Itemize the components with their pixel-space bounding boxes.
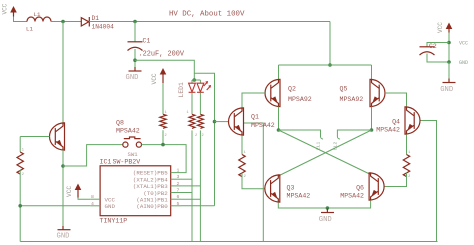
wire Q5 collector down	[371, 107, 373, 130]
wire LED branch	[135, 60, 194, 80]
node VCC C2	[447, 41, 451, 45]
resistor pair left (PB4)	[189, 114, 195, 128]
node bridge top	[328, 63, 332, 67]
IC pin stubs left	[90, 199, 100, 206]
svg-text:IC1: IC1	[100, 158, 112, 165]
svg-text:2: 2	[177, 181, 180, 187]
svg-text:GND: GND	[105, 203, 116, 210]
transistor Q5 MPSA92	[340, 79, 386, 107]
wire Q8 base	[20, 136, 49, 138]
riser PB4 to left pair resistor	[191, 130, 193, 241]
svg-text:8: 8	[91, 194, 94, 200]
svg-text:GND: GND	[440, 86, 453, 94]
svg-text:2: 2	[195, 134, 197, 138]
svg-text:2: 2	[244, 175, 246, 179]
svg-text:C2: C2	[429, 43, 437, 50]
svg-text:1: 1	[177, 168, 180, 174]
resistor pair right (PB3)	[197, 114, 203, 128]
wire Q2 emitter top	[278, 65, 280, 80]
riser PB0 to LED top	[194, 73, 214, 206]
wire pin7 tap	[181, 192, 193, 194]
supply VCC top right	[437, 22, 452, 33]
wire R to SW net	[162, 130, 164, 144]
svg-text:(AIN0)PB0: (AIN0)PB0	[136, 203, 168, 210]
transistor Q4 MPSA42	[376, 106, 420, 134]
capacitor C2	[420, 43, 450, 63]
svg-text:2: 2	[408, 175, 410, 179]
riser PB3 to right pair resistor	[199, 130, 201, 241]
svg-text:VCC: VCC	[437, 22, 444, 33]
transistor Q8 MPSA42	[49, 120, 139, 151]
resistor Q8 base	[17, 152, 23, 174]
wire Q1 base	[215, 121, 229, 123]
svg-text:1: 1	[187, 111, 189, 115]
wires LED to resistors	[191, 93, 193, 115]
transistor Q1 MPSA42	[228, 107, 274, 135]
supply VCC mid arrow	[151, 68, 166, 85]
wire diagonal Q2 to Q6	[279, 130, 371, 175]
capacitor C1	[128, 38, 185, 59]
bridge top rail	[279, 64, 372, 66]
svg-text:.22uF, 200V: .22uF, 200V	[139, 51, 185, 59]
pin numbers right	[177, 168, 180, 207]
diode D1 1N4004	[81, 15, 114, 30]
node GND C2	[447, 60, 451, 64]
svg-text:1: 1	[408, 151, 410, 155]
wire pin6 tap	[181, 198, 201, 200]
wire C1 drop	[134, 22, 136, 42]
svg-text:L1: L1	[34, 11, 41, 18]
wire base resistor top	[19, 137, 21, 153]
svg-text:2: 2	[202, 134, 204, 138]
wire pin3 tap	[181, 178, 193, 180]
wire HV to bridge	[329, 22, 331, 66]
svg-text:6: 6	[177, 194, 180, 200]
svg-text:VCC: VCC	[66, 186, 73, 197]
wire VCC to R	[162, 83, 164, 114]
svg-text:1: 1	[165, 111, 167, 115]
transistor Q2 MPSA92	[265, 79, 312, 107]
svg-text:Q2: Q2	[288, 85, 296, 92]
svg-text:GND: GND	[57, 232, 70, 240]
svg-text:MPSA42: MPSA42	[376, 127, 400, 134]
riser Q4 base to rail	[420, 121, 437, 242]
wire Q8 collector from node	[62, 22, 64, 124]
wire pin2 tap	[181, 185, 201, 187]
wire Q2 collector down	[278, 107, 280, 130]
wire base resistor to bottom rail	[19, 170, 21, 241]
wire diagonal Q5 to Q3	[278, 130, 371, 176]
svg-text:C1: C1	[143, 38, 151, 45]
supply VCC top-left	[2, 3, 17, 16]
wire Q4 collector to Q5 base	[385, 93, 407, 106]
svg-text:Q1: Q1	[251, 114, 259, 121]
svg-text:SW1: SW1	[128, 151, 139, 158]
node Q1 base tap	[213, 120, 217, 124]
wire VCC to pin 8	[78, 198, 90, 200]
EL output stub left	[279, 130, 324, 150]
svg-text:SW-PB2V: SW-PB2V	[113, 158, 141, 165]
wire to Q3 base	[242, 173, 265, 189]
wire to Q6 base	[384, 173, 407, 187]
wire Q8 emitter	[62, 150, 64, 226]
supply VCC for IC	[66, 184, 81, 198]
svg-text:Q8: Q8	[116, 120, 124, 127]
svg-text:MPSA42: MPSA42	[251, 122, 275, 129]
ground below C1	[126, 71, 142, 82]
resistor left bridge	[239, 155, 245, 177]
wire emitter to SW1	[63, 145, 123, 166]
svg-text:4: 4	[91, 201, 94, 207]
svg-text:Q6: Q6	[356, 185, 364, 192]
wire Q5 emitter top	[371, 65, 373, 80]
svg-text:VCC: VCC	[459, 41, 468, 47]
svg-text:VCC: VCC	[2, 3, 9, 14]
ground C2	[440, 83, 455, 95]
svg-text:Q4: Q4	[392, 119, 400, 126]
svg-text:1: 1	[244, 151, 246, 155]
wire VCC to node	[448, 33, 450, 63]
node junction L1/D1/Q8	[61, 20, 65, 24]
resistor right bridge	[403, 155, 409, 177]
riser Q1 right wire to rail	[244, 123, 264, 242]
svg-text:7: 7	[177, 188, 180, 194]
svg-text:GND: GND	[319, 216, 332, 224]
svg-text:MPSA42: MPSA42	[287, 193, 311, 200]
wire Q1 collector to Q2 base	[242, 93, 265, 107]
svg-text:L1: L1	[26, 26, 33, 33]
EL output stub right	[332, 130, 371, 150]
node LED top	[193, 78, 197, 82]
resistor pullup (VCC to reset)	[160, 114, 166, 128]
svg-text:TINY11P: TINY11P	[100, 218, 128, 225]
ground bridge	[319, 209, 334, 225]
node Q5 collector	[370, 128, 374, 132]
ground below Q8	[57, 230, 71, 241]
transistor Q3 MPSA42	[265, 174, 310, 202]
IC pin stubs right	[171, 173, 181, 206]
wire GND pin to left rail	[20, 205, 90, 207]
IC1 ATtiny11 box	[100, 158, 171, 224]
svg-text:Q3: Q3	[287, 185, 295, 192]
svg-text:3: 3	[177, 174, 180, 180]
wire pin5 to riser	[181, 205, 215, 207]
switch SW1	[123, 137, 142, 158]
svg-text:LED1: LED1	[178, 82, 185, 98]
svg-text:MPSA42: MPSA42	[340, 193, 364, 200]
svg-text:Q5: Q5	[340, 85, 348, 92]
wire SW1 to PB5 riser	[142, 145, 187, 173]
svg-text:1N4004: 1N4004	[92, 24, 115, 31]
svg-text:1: 1	[22, 149, 24, 153]
svg-text:GND: GND	[126, 74, 139, 82]
LED1 bicolor	[178, 80, 210, 98]
svg-text:2: 2	[22, 173, 24, 177]
tiny pin marks	[22, 111, 410, 179]
node LED branch at C1	[133, 58, 137, 62]
wire L1 to node	[51, 21, 81, 23]
svg-text:MPSA92: MPSA92	[288, 96, 312, 103]
svg-text:5: 5	[177, 201, 180, 207]
wire D1 to HV rail	[89, 21, 330, 23]
node Q8 emitter junction	[61, 164, 65, 168]
wire Q4 emitter to right bridge resistor	[406, 135, 408, 155]
bridge bottom rail	[278, 201, 370, 208]
transistor Q6 MPSA42	[340, 172, 384, 200]
svg-text:HV DC, About 100V: HV DC, About 100V	[169, 11, 245, 19]
bottom rail	[20, 241, 437, 243]
inductor L1	[26, 11, 51, 33]
svg-text:MPSA42: MPSA42	[116, 128, 140, 135]
svg-text:GND: GND	[459, 60, 468, 66]
node bridge gnd	[326, 206, 330, 210]
svg-text:2: 2	[165, 134, 167, 138]
wire Q1 emitter to left bridge resistor	[241, 136, 243, 155]
wire VCC to L1	[14, 17, 28, 22]
svg-text:MPSA92: MPSA92	[340, 96, 364, 103]
wire to ground	[448, 62, 450, 79]
node Q2 collector	[277, 128, 281, 132]
wire C1 to GND	[134, 49, 136, 67]
svg-text:VCC: VCC	[151, 73, 158, 84]
node pullup tap	[161, 143, 165, 147]
node junction C1 tap	[133, 20, 137, 24]
node GND pin tap	[18, 204, 22, 208]
